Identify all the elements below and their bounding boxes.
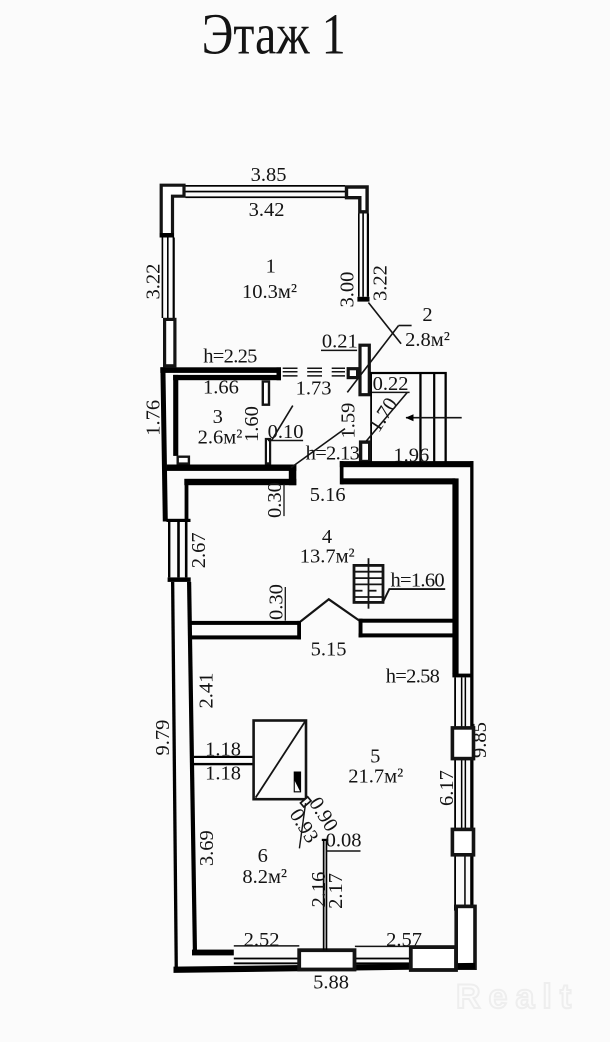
svg-text:h=2.25: h=2.25 (203, 346, 257, 368)
svg-text:2.52: 2.52 (244, 929, 280, 951)
svg-text:3.22: 3.22 (369, 265, 391, 301)
svg-text:3: 3 (213, 406, 223, 428)
svg-text:3.85: 3.85 (251, 164, 287, 186)
svg-text:2: 2 (422, 304, 432, 326)
svg-text:8.2м²: 8.2м² (242, 866, 287, 888)
svg-text:0.10: 0.10 (268, 421, 304, 443)
svg-text:1.66: 1.66 (203, 377, 239, 399)
svg-text:h=2.13: h=2.13 (306, 443, 360, 465)
svg-text:1.96: 1.96 (393, 445, 429, 467)
svg-text:1: 1 (266, 256, 276, 278)
svg-text:5.15: 5.15 (311, 639, 347, 661)
svg-text:h=1.60: h=1.60 (390, 570, 444, 592)
svg-text:0.22: 0.22 (373, 373, 409, 395)
svg-text:9.85: 9.85 (469, 722, 491, 758)
svg-text:2.17: 2.17 (325, 873, 347, 909)
svg-text:10.3м²: 10.3м² (242, 281, 297, 303)
svg-text:0.30: 0.30 (265, 584, 287, 620)
svg-text:1.73: 1.73 (296, 377, 332, 399)
svg-text:2.57: 2.57 (386, 929, 422, 951)
svg-text:13.7м²: 13.7м² (300, 546, 355, 568)
svg-text:0.21: 0.21 (322, 331, 358, 353)
svg-text:Этаж 1: Этаж 1 (202, 2, 346, 66)
svg-text:1.18: 1.18 (205, 763, 241, 785)
svg-text:1.60: 1.60 (241, 406, 263, 442)
svg-text:Realt: Realt (456, 978, 579, 1016)
svg-text:9.79: 9.79 (152, 720, 174, 756)
svg-text:0.08: 0.08 (326, 830, 362, 852)
svg-text:21.7м²: 21.7м² (348, 766, 403, 788)
svg-text:3.69: 3.69 (196, 830, 218, 866)
svg-text:1.59: 1.59 (338, 403, 360, 439)
svg-text:2.67: 2.67 (188, 532, 210, 568)
svg-text:h=2.58: h=2.58 (386, 666, 440, 688)
svg-text:3.00: 3.00 (337, 272, 359, 308)
svg-text:5: 5 (370, 746, 380, 768)
svg-text:2.41: 2.41 (195, 673, 217, 709)
svg-text:2.6м²: 2.6м² (198, 427, 243, 449)
svg-text:1.18: 1.18 (205, 739, 241, 761)
svg-text:3.42: 3.42 (249, 199, 285, 221)
svg-text:5.88: 5.88 (313, 972, 349, 994)
svg-text:6.17: 6.17 (436, 770, 458, 806)
svg-text:5.16: 5.16 (310, 484, 346, 506)
svg-text:0.30: 0.30 (264, 482, 286, 518)
svg-text:6: 6 (258, 845, 268, 867)
svg-text:2.8м²: 2.8м² (405, 329, 450, 351)
svg-text:1.76: 1.76 (142, 400, 164, 436)
svg-text:3.22: 3.22 (142, 264, 164, 300)
